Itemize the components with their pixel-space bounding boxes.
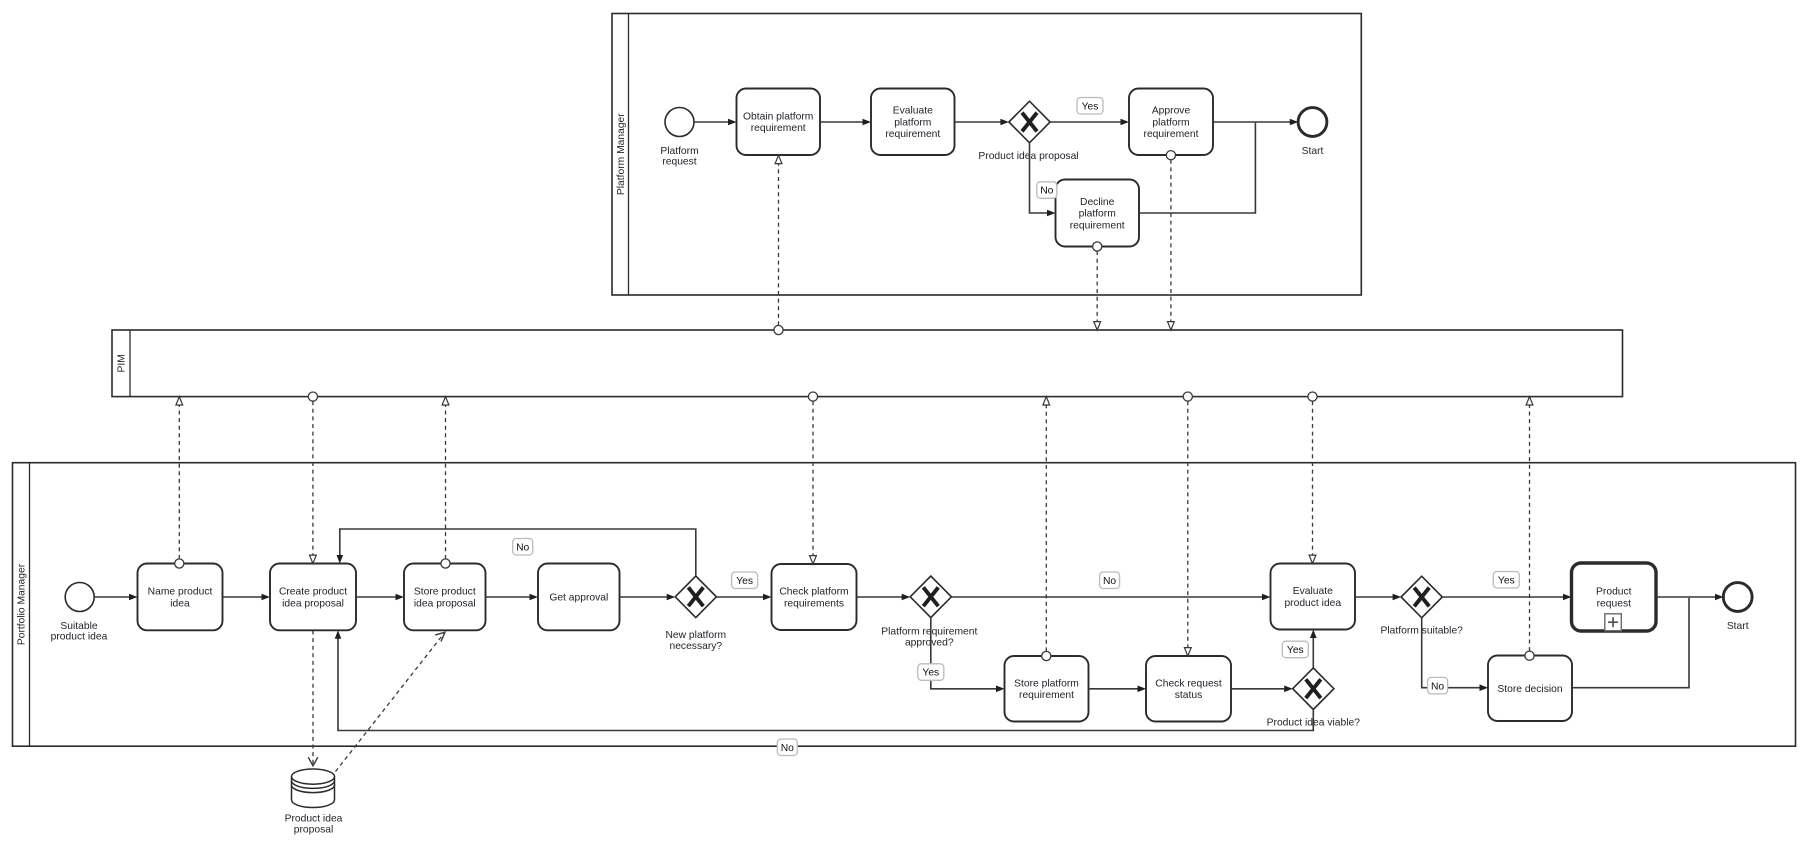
label No (decline) <box>1037 182 1057 199</box>
svg-text:Name product: Name product <box>148 587 213 598</box>
svg-text:No: No <box>1103 576 1116 587</box>
svg-text:Approve: Approve <box>1152 106 1191 117</box>
svg-text:No: No <box>781 743 794 754</box>
task Store platform requirement <box>1005 656 1089 722</box>
svg-text:requirement: requirement <box>751 123 806 134</box>
task Product request (subprocess) <box>1572 563 1657 631</box>
svg-text:New platform: New platform <box>665 630 726 641</box>
data association data store -> Store product idea proposal <box>336 632 445 771</box>
svg-text:Yes: Yes <box>1082 101 1099 112</box>
svg-text:requirement: requirement <box>1019 690 1074 701</box>
pool Platform Manager <box>612 14 1361 296</box>
message flow Store decision -> PIM <box>1525 397 1534 661</box>
svg-text:product idea: product idea <box>51 631 108 642</box>
svg-text:idea: idea <box>170 598 190 609</box>
svg-text:Store product: Store product <box>414 587 476 598</box>
message flow PIM -> Check platform requirements <box>808 392 817 564</box>
sequence flow Evaluate -> gateway <box>955 119 1009 126</box>
svg-text:Product: Product <box>1596 587 1632 598</box>
sequence flow Store decision -> join to End <box>1572 598 1689 688</box>
gateway product idea proposal XOR <box>1009 101 1050 143</box>
sequence flow Approve -> End <box>1213 119 1298 126</box>
data association Create product idea proposal -> data store <box>308 631 318 766</box>
message flow Approve -> PIM <box>1166 151 1175 330</box>
svg-text:approved?: approved? <box>905 638 954 649</box>
label Yes (to store platform requirement) <box>918 664 944 681</box>
event start Suitable product idea <box>65 583 94 612</box>
message flow Store product idea proposal -> PIM <box>441 397 450 569</box>
task Obtain platform requirement <box>737 89 821 156</box>
message flow PIM -> Evaluate product idea <box>1308 392 1317 564</box>
svg-text:Evaluate: Evaluate <box>893 106 933 117</box>
svg-text:Get approval: Get approval <box>549 593 608 604</box>
svg-text:Product idea proposal: Product idea proposal <box>978 151 1078 162</box>
gateway Platform suitable? <box>1401 576 1442 618</box>
svg-text:Store decision: Store decision <box>1497 684 1563 695</box>
svg-text:Yes: Yes <box>736 576 753 587</box>
sequence flow Platform suitable? -> Store decision (No) <box>1422 618 1488 691</box>
svg-text:request: request <box>1597 599 1631 610</box>
svg-text:Store platform: Store platform <box>1014 679 1079 690</box>
svg-text:Start: Start <box>1727 621 1749 632</box>
subprocess marker [+] on Product request <box>1605 614 1622 631</box>
message flow PIM -> Obtain platform requirement <box>774 155 783 334</box>
gateway Platform requirement approved? <box>910 576 951 618</box>
svg-text:requirements: requirements <box>784 599 844 610</box>
message flow Decline -> PIM <box>1093 242 1102 330</box>
sequence flow New platform necessary? -> Check platform requirements (Yes) <box>716 594 771 601</box>
label Yes (platform suitable) <box>1493 572 1519 589</box>
task Check platform requirements <box>772 564 857 630</box>
sequence flow Get approval -> New platform necessary? <box>620 594 676 601</box>
svg-text:No: No <box>1431 681 1444 692</box>
svg-text:status: status <box>1175 690 1202 701</box>
event end Start (Portfolio Manager) <box>1723 583 1752 612</box>
svg-text:Suitable: Suitable <box>60 621 97 632</box>
svg-text:Decline: Decline <box>1080 197 1115 208</box>
sequence flow Platform requirement approved? -> Evaluate product idea (No) <box>951 594 1270 601</box>
svg-text:requirement: requirement <box>1144 129 1199 140</box>
label No (to store decision) <box>1428 677 1448 694</box>
sequence flow Suitable product idea -> Name product idea <box>94 594 137 601</box>
task Store product idea proposal <box>404 564 486 631</box>
sequence flow Platform suitable? -> Product request (Yes) <box>1442 594 1571 601</box>
svg-text:product idea: product idea <box>1284 598 1341 609</box>
svg-text:Platform Manager: Platform Manager <box>616 113 627 195</box>
svg-text:Product idea: Product idea <box>285 814 343 825</box>
sequence flow Product idea viable? -> Evaluate product idea (Yes) <box>1310 630 1317 668</box>
svg-text:No: No <box>516 543 529 554</box>
svg-text:idea proposal: idea proposal <box>282 598 344 609</box>
message flow PIM -> Create product idea proposal <box>308 392 317 564</box>
data store Product idea proposal <box>292 769 335 808</box>
svg-text:platform: platform <box>1152 117 1189 128</box>
svg-text:Start: Start <box>1302 146 1324 157</box>
sequence flow Name -> Create <box>223 594 271 601</box>
label No (platform requirement approved) <box>1100 572 1120 589</box>
svg-text:Check platform: Check platform <box>779 587 848 598</box>
task Evaluate product idea <box>1271 564 1356 630</box>
task Evaluate platform requirement <box>871 89 955 156</box>
label Yes (to check platform requirements) <box>732 572 758 589</box>
label No (new platform top route) <box>513 539 533 556</box>
svg-text:No: No <box>1040 186 1053 197</box>
svg-text:Evaluate: Evaluate <box>1293 586 1333 597</box>
event start Platform request <box>665 108 694 137</box>
svg-text:request: request <box>662 156 696 167</box>
pool Portfolio Manager <box>13 463 1796 747</box>
svg-text:Portfolio Manager: Portfolio Manager <box>17 563 28 645</box>
label Yes (product idea viable) <box>1282 641 1308 658</box>
svg-text:platform: platform <box>1079 209 1116 220</box>
task Get approval <box>538 564 620 631</box>
task Name product idea <box>138 564 223 631</box>
sequence flow Store proposal -> Get approval <box>486 594 539 601</box>
gateway New platform necessary? <box>675 576 716 618</box>
svg-text:necessary?: necessary? <box>669 641 722 652</box>
sequence flow Create -> Store proposal <box>356 594 404 601</box>
svg-text:Create product: Create product <box>279 587 347 598</box>
sequence flow Obtain -> Evaluate <box>820 119 871 126</box>
svg-text:requirement: requirement <box>885 129 940 140</box>
svg-text:Check request: Check request <box>1155 679 1222 690</box>
svg-text:Yes: Yes <box>922 668 939 679</box>
sequence flow New platform necessary? -> Create (No, top route) <box>337 529 696 576</box>
task Check request status <box>1146 656 1231 722</box>
task Approve platform requirement <box>1129 89 1213 156</box>
label No (product idea viable bottom route) <box>777 739 797 756</box>
gateway Product idea viable? <box>1293 668 1334 710</box>
pool PIM <box>112 330 1623 397</box>
sequence flow Product request -> End <box>1656 594 1724 601</box>
svg-text:Obtain platform: Obtain platform <box>743 111 813 122</box>
task Decline platform requirement <box>1056 180 1140 247</box>
svg-text:Yes: Yes <box>1287 645 1304 656</box>
sequence flow Platform request -> Obtain <box>694 119 737 126</box>
sequence flow Platform requirement approved? -> Store platform requirement (Yes) <box>931 618 1005 693</box>
label Yes (approve) <box>1077 98 1103 115</box>
sequence flow Evaluate product idea -> Platform suitable? <box>1355 594 1401 601</box>
sequence flow Check request status -> Product idea viable? <box>1231 686 1293 693</box>
sequence flow gateway -> Approve (Yes) <box>1050 119 1129 126</box>
task Store decision <box>1488 656 1572 722</box>
sequence flow Product idea viable? -> Create (No, bottom route) <box>335 630 1314 730</box>
message flow Store platform requirement -> PIM <box>1042 397 1051 661</box>
message flow Name product idea -> PIM <box>175 397 184 569</box>
sequence flow Check platform requirements -> Platform requirement approved? <box>857 594 911 601</box>
svg-text:PIM: PIM <box>117 354 128 372</box>
svg-text:proposal: proposal <box>294 825 334 836</box>
sequence flow Decline -> join to End <box>1139 123 1255 213</box>
task Create product idea proposal <box>270 564 356 631</box>
svg-text:Platform requirement: Platform requirement <box>881 627 977 638</box>
event end Start (Platform Manager) <box>1298 108 1327 137</box>
svg-text:Yes: Yes <box>1498 575 1515 586</box>
message flow PIM -> Check request status <box>1183 392 1192 656</box>
svg-text:idea proposal: idea proposal <box>414 598 476 609</box>
sequence flow Store platform requirement -> Check request status <box>1089 686 1147 693</box>
sequence flow gateway -> Decline (No) <box>1030 143 1056 217</box>
svg-text:Platform: Platform <box>660 146 698 157</box>
svg-text:requirement: requirement <box>1070 220 1125 231</box>
svg-text:platform: platform <box>894 117 931 128</box>
